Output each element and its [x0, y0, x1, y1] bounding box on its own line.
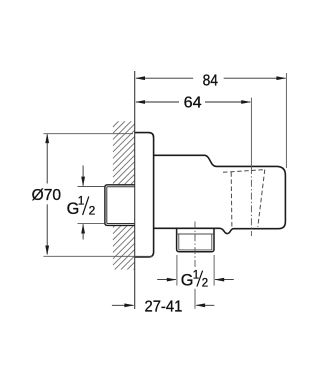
svg-text:1: 1 [193, 270, 199, 282]
label G1/2 bottom [181, 270, 208, 290]
label G1/2 left [67, 193, 96, 218]
extension line 84 (front face) [285, 73, 287, 168]
svg-text:27-41: 27-41 [145, 298, 183, 315]
hidden holder cone (dashed) [223, 170, 265, 229]
outlet centre line (dash-dot) [194, 222, 196, 268]
dimension G1/2 bottom extension lines [176, 255, 178, 286]
svg-text:1: 1 [78, 193, 85, 207]
svg-text:Ø70: Ø70 [32, 187, 61, 204]
dimension 84 [136, 77, 286, 79]
dimension G1/2 bottom arrows [157, 279, 234, 281]
svg-text:G: G [181, 272, 194, 290]
escutcheon flange outline [135, 133, 154, 257]
extension line 27-41 right [194, 289, 196, 309]
svg-text:84: 84 [203, 72, 219, 89]
extension line 64 (to holder centre) [250, 98, 252, 167]
dimension D70 extension lines [43, 133, 133, 135]
dimension G1/2 left extension lines [78, 186, 105, 188]
dimension D70 [46, 134, 48, 254]
svg-text:2: 2 [89, 203, 96, 217]
dimension G1/2 left arrows [82, 166, 84, 240]
wall hatching [113, 105, 135, 290]
dimension 64 [136, 101, 250, 103]
holder centre line (dash-dot) [250, 167, 252, 236]
left inlet nipple outline [105, 185, 135, 226]
holder arm outline [154, 155, 286, 233]
wall face line [134, 71, 136, 309]
left nipple thread lines [107, 187, 135, 224]
svg-text:64: 64 [184, 95, 202, 112]
svg-text:2: 2 [202, 278, 208, 290]
bottom nipple thread lines [177, 234, 214, 250]
bottom outlet nipple outline [177, 228, 214, 252]
dimension 27-41 [112, 304, 214, 306]
